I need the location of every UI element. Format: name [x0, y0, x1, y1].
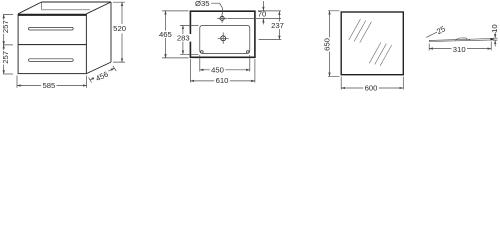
drain hole [221, 36, 226, 41]
dim 283: extension lines [180, 25, 199, 54]
dim 456: line [90, 68, 114, 80]
dim 585: line [17, 85, 87, 87]
svg-text:237: 237 [271, 21, 284, 30]
dim 70: label [258, 12, 267, 18]
dim 70: extension lines [228, 11, 282, 19]
dim 520: label [112, 24, 129, 33]
dim 450: label [210, 66, 226, 73]
drain crosshair [218, 32, 229, 44]
svg-text:257: 257 [1, 20, 10, 33]
dim 25 leader [426, 32, 437, 37]
svg-text:600: 600 [365, 84, 378, 93]
dim 257 top: label [2, 20, 9, 34]
svg-text:257: 257 [1, 51, 10, 64]
dim 257 bottom: extension line [3, 73, 13, 75]
basin outer rect [190, 11, 255, 57]
dim 10: outside arrows [494, 32, 496, 38]
svg-text:650: 650 [323, 38, 332, 51]
dim 600: extension lines [341, 77, 403, 90]
dim 650: label [323, 37, 331, 51]
dim 310: label [451, 45, 467, 52]
dim 257 top: line [3, 15, 5, 45]
mirror hatch group 1 [349, 19, 372, 42]
vanity inner back rail edge [42, 9, 90, 11]
dim 283: label [175, 34, 191, 42]
dim 456: label [93, 69, 111, 84]
dim 610: line [190, 80, 255, 82]
svg-text:585: 585 [42, 81, 55, 90]
svg-text:465: 465 [159, 30, 172, 39]
dim 650: line [329, 11, 331, 77]
vanity left side panel top diagonal [18, 2, 41, 14]
dim 450: extension lines [200, 55, 250, 72]
dim 450: line [200, 69, 250, 71]
svg-text:70: 70 [258, 10, 267, 19]
fixing hole right [247, 51, 250, 54]
vanity bottom right diagonal [86, 62, 111, 74]
svg-text:10: 10 [490, 24, 499, 33]
dim 465: line [165, 11, 167, 58]
mirror hatch group 2 [369, 42, 391, 65]
fixing hole left [201, 51, 204, 54]
shelf bracket profile [455, 38, 470, 40]
drawer handle 1 [29, 27, 74, 30]
dim 585: extension lines [17, 76, 87, 88]
dim 310: line [429, 48, 491, 50]
dim 610: label [214, 77, 230, 84]
tap hole crosshair [217, 14, 227, 23]
dim 465: label [157, 31, 173, 39]
dim 650: extension lines [328, 11, 340, 77]
dim 257 top: extension lines [3, 15, 13, 45]
dim 237: label [270, 22, 286, 30]
dim 610: extension lines [190, 59, 255, 83]
vanity front face [18, 15, 86, 74]
dim 70: outside arrows [262, 1, 264, 11]
vanity right side panel top diagonal [86, 2, 111, 14]
dim 465: extension lines [162, 11, 189, 58]
svg-text:283: 283 [177, 33, 190, 42]
tap hole Ø35 [220, 16, 224, 20]
dim 456: extension lines [89, 66, 117, 83]
dim 520: line [121, 2, 123, 62]
shelf right end cap [491, 39, 493, 40]
svg-text:450: 450 [211, 66, 224, 75]
Ø35 leader [211, 3, 223, 16]
svg-text:310: 310 [453, 45, 466, 54]
dim 600: label [363, 84, 379, 91]
dim 283: line [182, 25, 184, 54]
drawer divider [18, 44, 86, 46]
dim 10: extension lines [493, 38, 498, 40]
shelf slab [429, 39, 492, 42]
drawer handle 2 [29, 59, 74, 62]
dim 600: line [341, 87, 403, 89]
mirror outline [341, 12, 403, 75]
vanity back top edge [42, 1, 111, 3]
svg-text:610: 610 [216, 76, 229, 85]
vanity front top thick edge [18, 14, 86, 16]
dim 585: label [41, 82, 57, 89]
svg-text:Ø35: Ø35 [195, 0, 210, 8]
dim 520: extension lines [113, 2, 125, 62]
dim 237: extension line [259, 38, 282, 40]
dim 237: line [278, 11, 280, 39]
dim 257 bottom: label [2, 50, 9, 64]
dim 257 bottom: line [3, 45, 5, 74]
basin inner bowl [200, 25, 250, 53]
svg-text:520: 520 [113, 24, 126, 33]
vanity back-left inner vertical [41, 2, 43, 10]
vanity right back vertical edge [110, 2, 112, 62]
dim 310: extension lines [429, 42, 491, 51]
